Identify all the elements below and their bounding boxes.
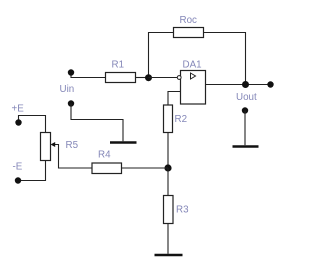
potentiometer R5 [41, 133, 51, 161]
ground (output) [233, 145, 259, 148]
label Roc [180, 15, 198, 26]
node Uin top terminal [68, 69, 74, 75]
label R4 [98, 150, 111, 161]
wire -E terminal to R5 bottom [18, 161, 46, 181]
wire Uin bottom terminal to ground [71, 104, 123, 142]
op-amp DA1 inverting input circle [177, 76, 181, 80]
label R5 [66, 140, 79, 151]
op-amp DA1 body [181, 71, 206, 105]
node B junction (R2/R3/R4) [164, 164, 171, 171]
label Uin [60, 84, 75, 95]
wire R1 to inverting node [136, 77, 149, 79]
wire Roc right lead down to output node [204, 33, 246, 85]
label +E [12, 104, 25, 115]
label -E [13, 162, 23, 173]
node Uout terminal [267, 81, 273, 87]
svg-text:R5: R5 [66, 140, 79, 151]
wire R3 to ground [167, 224, 169, 254]
node +E terminal [15, 119, 21, 125]
wire +E terminal to R5 top [19, 116, 46, 133]
wire node B to R3 [167, 168, 169, 196]
svg-text:R2: R2 [175, 114, 188, 125]
ground (input source) [110, 141, 137, 144]
label DA1 [183, 60, 202, 71]
node Uout return terminal [242, 107, 248, 113]
wire node B to R4 [122, 167, 169, 169]
resistor R2 [164, 105, 173, 133]
resistor Roc [174, 28, 204, 38]
svg-text:-E: -E [13, 162, 23, 173]
wiper arrow of R5 [51, 142, 56, 147]
svg-text:Uin: Uin [60, 84, 75, 95]
label R3 [176, 205, 189, 216]
wire R4 to R5 wiper [54, 145, 92, 169]
node Uin bottom terminal [68, 100, 74, 106]
svg-text:R4: R4 [98, 150, 111, 161]
label R1 [112, 60, 125, 71]
wire Uin terminal to R1 [71, 73, 106, 78]
svg-text:R3: R3 [176, 205, 189, 216]
wire op-amp output to Uout terminal [206, 84, 271, 86]
svg-text:+E: +E [12, 104, 25, 115]
label Uout [236, 92, 257, 103]
resistor R3 [164, 196, 174, 224]
wire non-inverting input to R2 [168, 92, 181, 106]
svg-text:Roc: Roc [180, 15, 198, 26]
svg-text:DA1: DA1 [183, 60, 202, 71]
node output junction [242, 81, 249, 88]
node -E terminal [15, 177, 21, 183]
wire R2 to node B [167, 133, 169, 169]
svg-text:R1: R1 [112, 60, 125, 71]
label R2 [175, 114, 188, 125]
op-amp DA1 triangle marker [191, 73, 196, 79]
ground (below R3) [155, 254, 183, 257]
node A junction (inverting input net) [145, 74, 152, 81]
svg-text:Uout: Uout [236, 92, 257, 103]
resistor R1 [106, 73, 136, 83]
wire Uout return terminal to ground [244, 111, 246, 146]
wire inverting node to op-amp input [149, 77, 178, 79]
wire Roc left lead down to inverting node [149, 33, 174, 78]
resistor R4 [92, 163, 122, 174]
